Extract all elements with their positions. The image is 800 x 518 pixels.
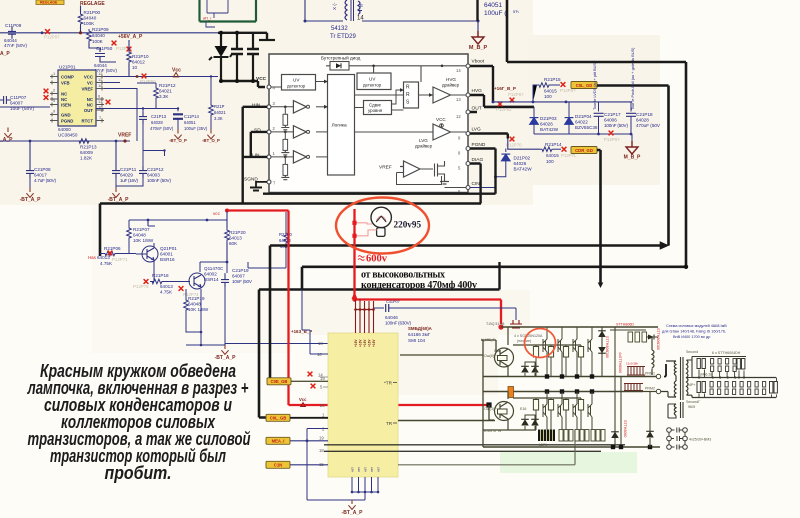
svg-text:Ош: Ош (494, 349, 500, 353)
svg-text:C21P08: C21P08 (34, 167, 51, 172)
svg-text:R21P12: R21P12 (159, 83, 176, 88)
svg-text:R21P15: R21P15 (544, 77, 561, 82)
net pill COL_GD (571, 82, 597, 89)
svg-text:18: 18 (319, 448, 324, 453)
navy rail y102 (493, 101, 632, 103)
svg-text:64040: 64040 (84, 16, 97, 21)
svg-text:NC: NC (87, 103, 93, 108)
svg-text:-BT_A_P: -BT_A_P (108, 197, 130, 203)
svg-text:STTH806D: STTH806D (616, 323, 634, 327)
svg-text:VREF: VREF (379, 165, 392, 171)
capacitor C21P13 (139, 112, 174, 131)
junction square T11 emitter (545, 374, 549, 378)
ground -BT_A_P (108, 188, 130, 204)
svg-text:для GSвн 140/148, Falng IS 160: для GSвн 140/148, Falng IS 160/176, (662, 330, 726, 334)
wire top bus y33 (0, 26, 218, 33)
wire TR row to power stage (398, 420, 495, 422)
svg-text:10: 10 (132, 65, 138, 70)
svg-text:100: 100 (546, 159, 554, 164)
power transistor T23 (573, 392, 577, 431)
capacitor C21P12 (139, 141, 171, 183)
capacitor C11P50 (94, 46, 117, 73)
HVG driver buffer (433, 77, 460, 103)
power transistor T22 (558, 392, 562, 431)
gate driver IC outer box (269, 54, 468, 193)
svg-text:96/5: 96/5 (688, 405, 695, 409)
svg-text:VCC: VCC (84, 75, 93, 80)
PRM1 pin (645, 372, 661, 379)
X mark on Vcc rail (140, 74, 156, 84)
svg-text:HVG: HVG (446, 77, 456, 82)
svg-text:UC38450: UC38450 (58, 133, 78, 138)
svg-text:4х25/30+ВМ3: 4х25/30+ВМ3 (689, 438, 711, 442)
svg-text:VREF: VREF (118, 133, 131, 139)
node dots on VREF rail (29, 140, 32, 143)
gate resistor box T12 (548, 345, 553, 377)
resistor R21P20 on vcc branch (225, 211, 246, 263)
svg-text:64051: 64051 (484, 2, 502, 9)
gate resistor box T11 (533, 345, 538, 377)
svg-text:Ош(0)Р: Ош(0)Р (484, 354, 497, 358)
svg-text:64021: 64021 (214, 110, 226, 115)
wire y268 (248, 262, 286, 268)
red node dot at 600v junction (352, 297, 356, 301)
svg-text:D21P02: D21P02 (514, 156, 531, 161)
svg-text:20: 20 (320, 403, 325, 408)
red wire vcc to IC pin20 (227, 211, 489, 406)
collector bus y327 (501, 326, 658, 328)
resistor R21P18 (150, 273, 190, 295)
resistor R21P13 (77, 139, 97, 161)
red square terminal lower (352, 234, 356, 238)
bus3 y391.5 (483, 391, 643, 393)
junction square T21 collector (545, 389, 549, 393)
snubber diode (646, 335, 658, 340)
svg-text:_A_P: _A_P (0, 137, 13, 143)
resistor R21P14 (540, 142, 562, 164)
input buffer LIN (271, 151, 328, 163)
arrows logic paths (316, 82, 404, 111)
svg-text:100nF (50V): 100nF (50V) (604, 123, 628, 128)
thick wire DIAG riser (470, 164, 481, 204)
svg-text:10uF (50V): 10uF (50V) (10, 106, 34, 111)
svg-text:UV: UV (293, 78, 300, 83)
svg-text:C0L_GD: C0L_GD (576, 83, 593, 88)
svg-text:UV: UV (369, 77, 376, 82)
svg-text:64012: 64012 (132, 60, 145, 65)
X marks on NC pins (44, 89, 49, 94)
svg-text:ВнВ И400 1700 во др: ВнВ И400 1700 во др (673, 335, 710, 339)
vertical x621 (620, 377, 622, 448)
svg-text:Tour le LVDS (au + ptit BUS): Tour le LVDS (au + ptit BUS) (593, 61, 597, 110)
svg-text:(М)6.2в: (М)6.2в (700, 373, 712, 377)
svg-text:100uF (: 100uF ( (484, 10, 507, 17)
svg-text:нет: нет (351, 467, 355, 472)
net pill COE_GB (267, 378, 291, 385)
main transformer primary windings (661, 361, 676, 397)
resistor R21P10 (127, 40, 149, 77)
IC bottom pins (351, 467, 381, 494)
thick wire COL_GD to bus (597, 86, 669, 246)
yellow label box top-left (36, 0, 64, 5)
svg-text:R21P19: R21P19 (188, 296, 205, 301)
resistor comb 1 (627, 367, 645, 376)
transformer core (681, 357, 684, 400)
svg-text:-BT_О_P: -BT_О_P (202, 138, 220, 143)
svg-text:SecondГ: SecondГ (686, 400, 700, 404)
stub under green box (206, 22, 215, 28)
thick wire x302 (301, 267, 304, 290)
ground A_P under C11P07 (0, 128, 13, 144)
svg-text:BSR14: BSR14 (204, 277, 219, 282)
node red square at transistor driver (486, 402, 491, 407)
gate bus row2 (513, 397, 581, 399)
driver transistor Q1 (494, 327, 514, 377)
wire down to M_B_P (477, 21, 479, 36)
pink wire lamp base (357, 230, 377, 236)
svg-text:CDR_GD: CDR_GD (575, 148, 593, 153)
svg-text:Tr ETD29: Tr ETD29 (330, 34, 356, 40)
svg-text:R21P09: R21P09 (92, 27, 109, 32)
X mark (127, 47, 132, 52)
svg-text:ISEN: ISEN (61, 103, 71, 108)
svg-text:BSR16: BSR16 (160, 257, 175, 262)
bridge vertical links (669, 432, 685, 444)
svg-text:64013: 64013 (229, 236, 242, 241)
svg-text:Q11470С: Q11470С (204, 266, 224, 271)
svg-text:R21P10: R21P10 (132, 54, 149, 59)
svg-text:U21P01: U21P01 (59, 65, 76, 70)
pill COL_GB row pin1 (266, 414, 290, 421)
svg-text:драйвер: драйвер (442, 83, 460, 88)
free-wheel diode pair upper (521, 362, 539, 377)
node dot (136, 75, 139, 78)
base resistor box Q2 (498, 409, 508, 414)
SGND ground symbol (250, 182, 267, 191)
node dot (41, 31, 44, 34)
wire Q2 base from red node (489, 405, 494, 420)
junction square T22 collector (560, 389, 564, 393)
svg-text:P12P70: P12P70 (506, 143, 522, 148)
svg-text:R21P18: R21P18 (152, 273, 169, 278)
zener diode thick (209, 33, 232, 81)
svg-text:64186 3мГ: 64186 3мГ (408, 332, 431, 337)
navy return rail y134 (534, 133, 632, 135)
output MOSFET (435, 161, 450, 184)
svg-text:STTH8060: STTH8060 (623, 420, 627, 437)
red ellipse around lamp (336, 198, 429, 254)
gate resistor box T24 (578, 398, 583, 430)
thick wire SD feed (251, 132, 267, 157)
svg-text:OUT: OUT (472, 106, 482, 112)
output cap bank big pair top (697, 359, 705, 378)
svg-text:VREF: VREF (82, 87, 94, 92)
svg-text:PGND: PGND (472, 142, 486, 148)
junction square T12 emitter (560, 374, 564, 378)
thick wire y62 (507, 61, 686, 64)
X mark on return rail (604, 131, 620, 142)
net label Vcc (172, 68, 181, 77)
vertical x615 (614, 327, 616, 447)
svg-text:100nF (630V): 100nF (630V) (385, 321, 411, 326)
ground -BT_A_P under R21P11 (202, 129, 220, 143)
svg-text:600v: 600v (366, 254, 388, 265)
svg-text:Vboot: Vboot (472, 59, 485, 65)
svg-text:Q21P01: Q21P01 (160, 246, 177, 251)
svg-text:Е: Е (360, 3, 363, 8)
svg-text:C41P07: C41P07 (386, 300, 400, 304)
CIN wire inside (445, 187, 467, 189)
svg-text:64007: 64007 (10, 101, 23, 106)
transistor Q21470 BSR14 (189, 266, 224, 289)
svg-text:CIN: CIN (472, 181, 481, 187)
beige region top-left (0, 0, 533, 205)
svg-text:D21P04: D21P04 (575, 114, 592, 119)
transformer Tr ETD29 (330, 0, 364, 40)
thick bottom bus y81 to driver pin (221, 81, 265, 87)
svg-text:PRM1: PRM1 (645, 372, 655, 376)
wires inside green box (207, 0, 228, 18)
secondary top rail (692, 357, 746, 378)
svg-text:R21P07: R21P07 (133, 227, 150, 232)
svg-text:R: R (406, 85, 410, 91)
svg-text:нет: нет (377, 467, 381, 472)
svg-text:vcc: vcc (213, 211, 221, 216)
PRM2 pin (643, 387, 661, 394)
svg-text:NC: NC (61, 92, 67, 97)
junction square T14 emitter (590, 374, 594, 378)
svg-text:MEA_I: MEA_I (272, 439, 285, 444)
svg-text:10nF (50V: 10nF (50V (232, 279, 253, 284)
wires to ground y345 (186, 287, 225, 345)
svg-text:BAT42W: BAT42W (540, 127, 559, 132)
svg-text:C11P07: C11P07 (10, 95, 27, 100)
X mark before COL_GD (560, 82, 576, 93)
svg-text:64002: 64002 (204, 272, 217, 277)
capacitor C21P08 (26, 166, 56, 183)
svg-text:Has: Has (88, 255, 97, 260)
thick wire CDR_GD down (597, 150, 601, 283)
wire logic to LVG (355, 131, 467, 133)
svg-text:BZV55C36: BZV55C36 (575, 125, 598, 130)
svg-text:TR: TR (386, 421, 393, 426)
pin 6 CIN (458, 181, 480, 194)
svg-text:100uF (35V): 100uF (35V) (184, 126, 208, 131)
svg-text:24P+: 24P+ (687, 383, 696, 387)
transistor Q21P01 (136, 246, 177, 262)
diode column x602 (598, 327, 606, 377)
svg-text:C11P50: C11P50 (96, 46, 113, 51)
bootstrap diode box (330, 62, 349, 71)
svg-text:64048: 64048 (133, 233, 146, 238)
wire pin19 row from x302 (302, 330, 328, 354)
tall cap pair right bottom (770, 378, 778, 398)
thick wire x499 stub (498, 262, 500, 290)
power transistor T13 (573, 327, 577, 377)
red square terminal upper (352, 221, 356, 225)
capacitor C21P19 (221, 268, 253, 287)
svg-text:STTH806D80: STTH806D80 (656, 328, 660, 350)
node red junction (225, 209, 229, 213)
svg-text:P12P62: P12P62 (496, 107, 512, 112)
resistor R21P09 near red riser (279, 212, 292, 268)
svg-text:+16Г_B_P: +16Г_B_P (494, 86, 516, 91)
wire base row Q1 (400, 340, 496, 355)
X mark near Vboot (508, 92, 524, 102)
driver transistor Q2 (484, 392, 514, 431)
capacitor C21P17 (594, 102, 629, 134)
wire vertical from REGLAGE (80, 6, 82, 13)
thick wire x686 (685, 62, 688, 267)
ground M_B_P (469, 31, 488, 51)
capacitor C11P14 polarized (173, 114, 208, 131)
pin 5 with X (311, 384, 328, 390)
svg-text:64048: 64048 (188, 302, 201, 307)
junction dot x686 (684, 265, 688, 269)
svg-text:от высоковольтных: от высоковольтных (361, 270, 445, 281)
svg-text:нет: нет (357, 467, 361, 472)
svg-text:12: 12 (456, 114, 461, 119)
X mark LVG (506, 137, 522, 148)
svg-text:64015: 64015 (544, 89, 557, 94)
svg-text:C21P19: C21P19 (232, 268, 249, 273)
LIN pulldown resistor (281, 156, 289, 180)
thick wire top x478 (476, 0, 478, 21)
red arrow up 600v (352, 292, 358, 299)
gate bus row1 (513, 344, 581, 346)
pin 1 LIN (252, 151, 276, 159)
svg-text:19: 19 (319, 436, 324, 441)
LVG driver buffer (415, 117, 451, 149)
mid rail y377.5 (692, 377, 776, 379)
svg-text:A_P: A_P (0, 51, 10, 57)
svg-text:конденсаторов 470мф 400v: конденсаторов 470мф 400v (361, 280, 477, 291)
net pill MEA_I (266, 437, 290, 444)
svg-text:C21P11: C21P11 (120, 167, 137, 172)
svg-text:GND: GND (61, 113, 71, 118)
svg-text:64029: 64029 (120, 173, 133, 178)
wire MEA_I to pin19 (290, 440, 328, 442)
svg-text:12: 12 (98, 71, 103, 76)
resistor group x591 (591, 430, 605, 442)
thick bus y267 (302, 265, 686, 268)
svg-text:VC: VC (87, 81, 93, 86)
ground -BT_A_P under C11P14 (169, 129, 187, 143)
svg-text:P12P71: P12P71 (112, 257, 128, 262)
level shift box (364, 101, 392, 115)
resistor R21P00 (78, 10, 100, 26)
svg-text:64026: 64026 (540, 122, 553, 127)
power transistor T11 (543, 327, 547, 377)
junction square T24 collector (590, 389, 594, 393)
svg-text:RTCT: RTCT (82, 119, 94, 124)
svg-text:иП_г: иП_г (203, 17, 212, 21)
pin stubs left of U21P01 (50, 75, 58, 123)
gate resistor box T22 (548, 398, 553, 430)
svg-text:C11P14: C11P14 (184, 114, 199, 119)
power transistor T12 (558, 327, 562, 377)
X mark near OUT (496, 102, 512, 112)
svg-text:R21P00: R21P00 (84, 10, 101, 15)
thick bus y245 (270, 243, 666, 247)
diode bottom x650 (646, 392, 654, 448)
svg-text:SMБД(60)А: SMБД(60)А (408, 326, 433, 331)
wire from emitter to IC pin18 rail (225, 344, 328, 346)
svg-text:OUT: OUT (84, 108, 93, 113)
wire COE_GB to pin (291, 380, 328, 382)
small caps bottom row (710, 382, 713, 395)
svg-text:C0L_GB: C0L_GB (270, 416, 287, 421)
svg-text:SMI 104: SMI 104 (408, 338, 426, 343)
pin stubs right of U21P01 (96, 75, 104, 123)
svg-text:M_B_P: M_B_P (624, 155, 641, 161)
lamp bulb (371, 207, 391, 236)
bottom cap bank tall pair left (697, 382, 705, 398)
resistor comb 2 (624, 384, 643, 391)
long wire y451 (324, 450, 601, 452)
svg-text:D21P03: D21P03 (540, 116, 557, 121)
svg-text:4.7uF (50V): 4.7uF (50V) (34, 178, 56, 183)
wire vcc row y220 (129, 220, 227, 226)
pin 9 LVG (458, 127, 481, 141)
left rail x483 (482, 340, 484, 447)
capacitor thick 1 (231, 33, 243, 81)
resistor R21P06 (88, 246, 136, 266)
svg-text:60K: 60K (229, 241, 238, 246)
svg-text:64006: 64006 (604, 118, 617, 123)
svg-text:64021: 64021 (159, 89, 172, 94)
resistor R21P09 (87, 27, 109, 44)
svg-text:13: 13 (98, 99, 103, 104)
svg-text:NC: NC (61, 97, 67, 102)
bootstrap wire to Vboot (326, 66, 466, 73)
svg-text:P12P75: P12P75 (133, 284, 149, 289)
svg-text:64015: 64015 (546, 153, 559, 158)
thick bus y290 (259, 288, 500, 291)
svg-text:+16V: +16V (363, 339, 367, 347)
VREF comparator (379, 161, 442, 185)
net pill CDR_GD (571, 147, 597, 154)
node dot (79, 31, 82, 34)
svg-text:1uF (16V): 1uF (16V) (120, 178, 138, 183)
HIN pulldown resistor (281, 106, 289, 130)
svg-text:REGLAGE: REGLAGE (40, 1, 58, 5)
pin 13 HVG (456, 88, 482, 102)
diode D21P04 zener (565, 102, 598, 134)
capacitor 64051 label (484, 2, 519, 17)
X mark before CDR_GD (561, 147, 577, 158)
svg-text:+16V: +16V (354, 339, 358, 347)
svg-text:*TR: *TR (384, 381, 393, 386)
svg-text:64028: 64028 (636, 118, 649, 123)
svg-text:детектор: детектор (363, 83, 382, 88)
capacitor C21P18 (626, 102, 661, 134)
bridge caps (672, 428, 683, 450)
red circle around failed transistor (525, 329, 556, 358)
bottom pins common wire (307, 492, 378, 500)
resistor group x575 (575, 430, 589, 442)
junction dots top/bottom bus (219, 31, 223, 35)
svg-text:1.82K: 1.82K (80, 156, 93, 161)
svg-text:64028: 64028 (151, 120, 163, 125)
diode bottom x615 (611, 432, 619, 438)
svg-text:VFB: VFB (61, 81, 70, 86)
svg-text:Е16: Е16 (520, 407, 526, 411)
wires RS to HVG buffer (419, 66, 467, 95)
svg-text:нет: нет (370, 467, 374, 472)
beige region right of driver (528, 35, 660, 185)
svg-text:6 x STTH6004DH: 6 x STTH6004DH (712, 351, 741, 355)
